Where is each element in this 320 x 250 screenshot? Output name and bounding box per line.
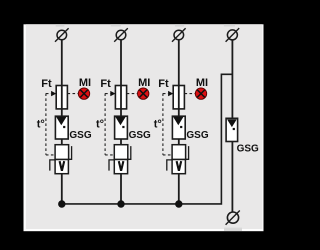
svg-text:GSG: GSG — [69, 130, 91, 141]
svg-text:MI: MI — [79, 77, 91, 89]
svg-text:GSG: GSG — [237, 144, 259, 155]
svg-text:Ft: Ft — [41, 78, 52, 90]
svg-text:t°: t° — [37, 119, 45, 131]
